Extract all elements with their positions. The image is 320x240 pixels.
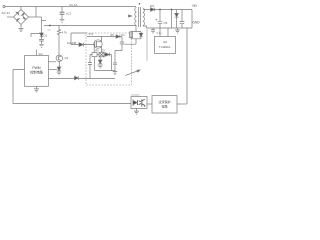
svg-text:+5V: +5V [192,4,199,8]
capacitor C6 [180,10,185,29]
svg-text:U2: U2 [163,40,167,44]
wire bridge bottom stub [20,25,22,29]
svg-text:D5: D5 [150,4,154,8]
ground under C1 [60,19,65,22]
svg-text:C4: C4 [121,34,125,37]
wire U2 pins [160,28,168,37]
PWM controller box U1 [25,56,49,87]
wire column x41.5 [41,17,43,33]
ground under opto [134,109,139,115]
wire drain rail y36.5 [87,36,122,38]
IC U2 box [155,37,176,54]
svg-text:0.1u: 0.1u [157,31,163,35]
ground under D8 [57,72,61,75]
wire AC left stub [7,16,14,18]
wire bridge top to rail [20,7,22,10]
wire PWM top stub [36,50,38,56]
diode D12 [116,35,120,38]
wire output right [191,10,193,29]
svg-text:控制电路: 控制电路 [30,70,44,75]
wire top rail [5,6,136,8]
diode D5 [151,8,155,12]
transformer T1 [135,3,145,27]
diode D2 [40,33,44,37]
diode D6 [98,60,102,64]
wire PWM pin3 [49,78,116,80]
dashed enclosure [86,33,132,85]
bridge rectifier BR1 [14,10,29,25]
wire mid column [171,10,173,29]
capacitor C7 [88,55,92,79]
wire feedback [186,28,188,104]
svg-text:Q1: Q1 [65,56,69,60]
svg-text:C2: C2 [48,29,52,32]
transistor Q3 box [99,53,104,57]
wire secondary bottom rail [143,26,192,28]
wire into box y33 [71,33,87,45]
diode D3 [79,43,83,47]
node dots secondary [159,9,161,11]
svg-text:TL494CL: TL494CL [159,45,171,49]
wire cluster [95,55,115,71]
wire right drop x36 [35,7,37,18]
diode D9 [105,53,109,57]
capacitor C4 [115,37,124,64]
wire stub right at y20.5 [42,20,47,22]
svg-text:VT1: VT1 [89,32,94,36]
svg-text:1N4148: 1N4148 [67,41,77,45]
capacitor C3 [39,37,44,44]
svg-text:GND: GND [193,21,201,25]
capacitor C8 [151,28,155,34]
capacitor C5 [158,10,163,29]
wire box to feedback [177,103,187,105]
diode D11 [175,13,179,17]
ground output [175,28,180,33]
svg-text:电路: 电路 [161,104,167,109]
svg-text:过流保护: 过流保护 [158,99,170,104]
svg-text:AC IN: AC IN [2,11,10,15]
svg-text:PWM: PWM [32,66,40,70]
ground under D6 [98,65,103,68]
svg-text:C9: C9 [102,50,106,53]
wire PWM pin2 [49,69,58,71]
svg-text:R5: R5 [96,50,100,53]
snubber network [130,26,141,38]
capacitor C1 [61,7,63,13]
wire middle row [90,54,99,56]
AC input terminal [3,5,5,7]
wire bottom rail [13,103,131,105]
MOSFET Q2 [94,40,102,48]
ground under PWM [34,89,39,92]
wire PWM pin1 [49,61,57,63]
wire PWM bottom stub [36,86,38,88]
diode D7 [139,33,143,36]
node dot on rail B [49,25,51,27]
resistor R2 [92,53,97,57]
protection circuit box U4 [152,96,177,114]
capacitor C10 [113,63,117,71]
ground under C3 [39,44,44,47]
transistor Q1 [56,55,62,61]
ground under C10 [113,71,118,75]
svg-text:FU 1A: FU 1A [70,3,78,7]
svg-text:+C1: +C1 [66,12,72,16]
wire sense drop [146,29,148,61]
wire opto to box [147,103,152,105]
diode D8 [57,67,61,71]
svg-text:Vcc: Vcc [39,52,44,56]
current arrow [129,15,132,17]
wire stub left at y33.5 [31,34,42,38]
resistor R1 [57,26,60,56]
optocoupler U3 [131,97,147,109]
svg-text:C5: C5 [164,21,168,25]
wire PWM left pin [13,70,25,104]
wire right vertex link [29,16,42,18]
wire rail B [44,25,136,27]
wire secondary top rail [143,9,192,11]
svg-text:4.7k: 4.7k [62,31,68,35]
ground under bridge [19,29,24,32]
svg-text:D1: D1 [44,33,48,37]
diode D4 on gate drive [75,76,79,80]
annotation arrow [126,71,139,76]
svg-text:PC817: PC817 [132,93,141,97]
